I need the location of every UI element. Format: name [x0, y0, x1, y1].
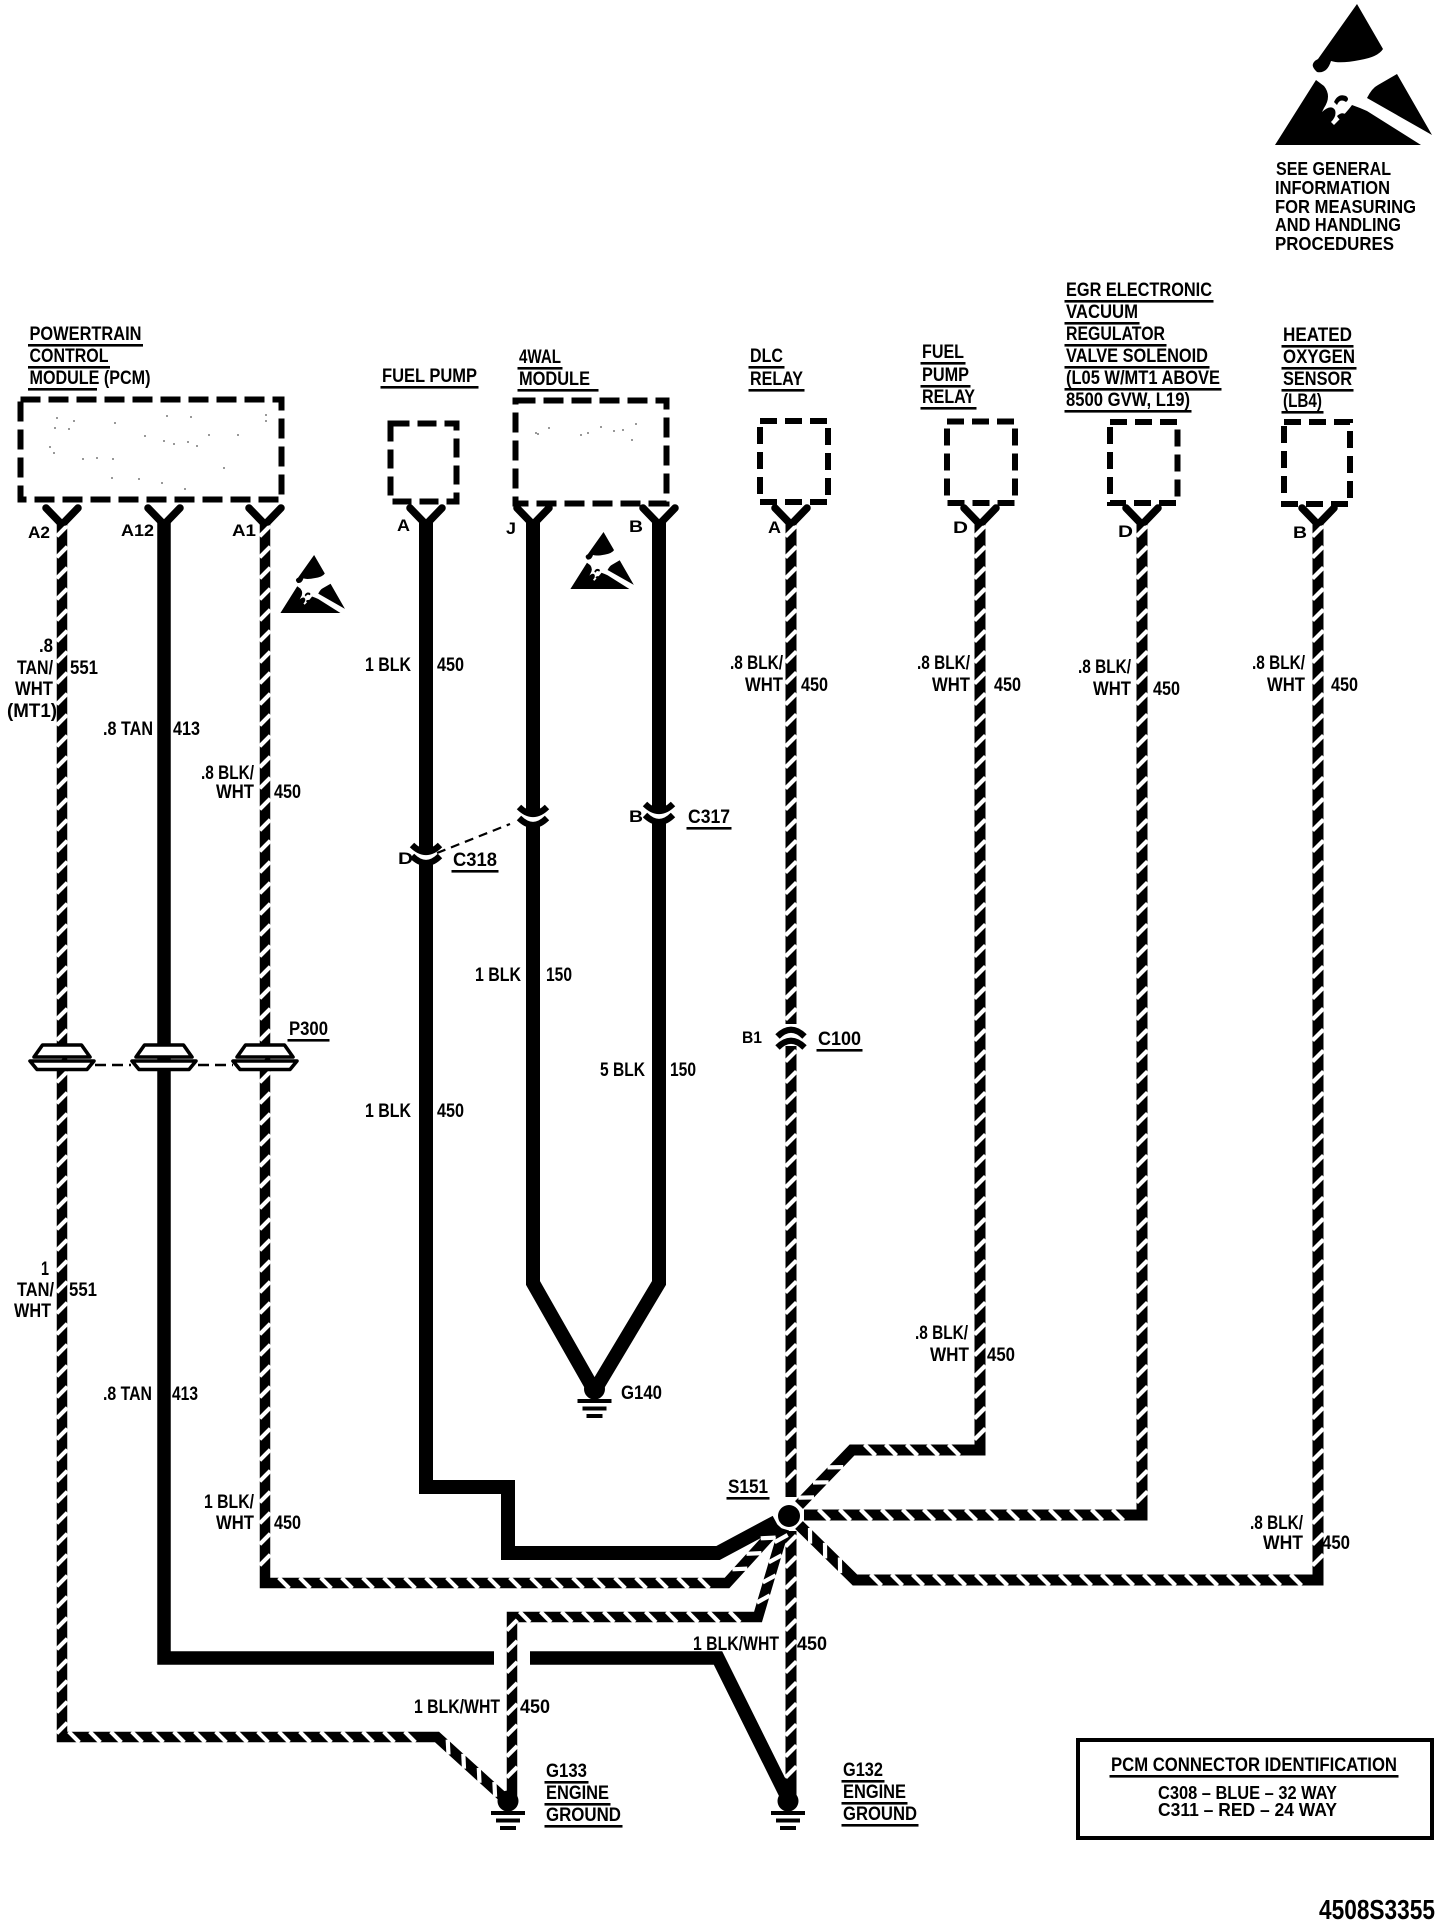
pass-through grommet P300 on A1 wire	[233, 1045, 297, 1070]
label connector C100 label	[817, 1029, 863, 1052]
svg-text:450: 450	[987, 1345, 1015, 1366]
label EGR title 6	[1065, 390, 1192, 413]
svg-text:5 BLK: 5 BLK	[600, 1060, 645, 1081]
svg-text:C311 – RED – 24 WAY: C311 – RED – 24 WAY	[1158, 1800, 1337, 1820]
svg-text:(LB4): (LB4)	[1283, 391, 1322, 412]
svg-text:A2: A2	[28, 523, 50, 542]
label FP relay lower color 2	[930, 1345, 969, 1366]
svg-text:ENGINE: ENGINE	[546, 1783, 609, 1804]
svg-text:1 BLK: 1 BLK	[365, 655, 411, 676]
svg-text:MODULE: MODULE	[519, 369, 590, 390]
svg-text:VALVE SOLENOID: VALVE SOLENOID	[1066, 346, 1208, 367]
pin terminal DLC relay pin A	[775, 508, 807, 522]
dashed link P300 b	[198, 1064, 233, 1067]
pin terminal heated O2 sensor pin B	[1302, 508, 1334, 522]
inline connector C318 half on 4WAL J wire	[519, 807, 547, 825]
pass-through grommet P300 on A2 wire	[30, 1045, 94, 1070]
svg-text:J: J	[506, 519, 516, 538]
label A2 option	[7, 701, 57, 722]
label pin B C317	[629, 807, 643, 826]
wire fuel pump 1 BLK 450 (to S151)	[426, 862, 776, 1553]
label pin A DLC	[768, 518, 781, 537]
svg-text:FUEL: FUEL	[922, 342, 964, 363]
label G133 label 2	[545, 1783, 611, 1806]
ground G140	[578, 1379, 612, 1419]
pin terminal PCM pin A12	[148, 508, 180, 522]
label HO2S title 1	[1282, 325, 1354, 348]
label G140 label	[621, 1383, 662, 1404]
wire heated O2 sensor B .8 BLK/WHT 450 to S151	[799, 521, 1324, 1586]
svg-text:450: 450	[801, 675, 828, 696]
svg-text:D: D	[398, 849, 413, 868]
svg-text:.8 BLK/: .8 BLK/	[1078, 657, 1132, 678]
label A12 lower gauge/color	[103, 1384, 152, 1405]
label HO2S lower color 2	[1263, 1533, 1303, 1554]
label A2 lower color 2	[14, 1301, 51, 1322]
svg-text:VACUUM: VACUUM	[1066, 302, 1138, 323]
label fuel pump lower gauge/color	[365, 1101, 411, 1122]
label pin B1 C100	[742, 1028, 762, 1047]
label HO2S title 4	[1282, 391, 1324, 414]
wire fuel pump relay D .8 BLK/WHT 450 to S151	[798, 521, 985, 1505]
svg-text:WHT: WHT	[745, 675, 783, 696]
svg-text:551: 551	[69, 1280, 97, 1301]
svg-text:B1: B1	[742, 1028, 762, 1047]
svg-text:450: 450	[1153, 679, 1180, 700]
label S151-G133 gauge/color	[414, 1697, 500, 1718]
label A2 lower color 1	[17, 1280, 55, 1301]
label info box title	[1110, 1755, 1399, 1778]
label fuel pump gauge/color	[365, 655, 411, 676]
label note line 5	[1275, 234, 1394, 254]
svg-text:D: D	[953, 518, 968, 537]
label EGR title 4	[1065, 346, 1210, 369]
label EGR color 2	[1093, 679, 1131, 700]
inline connector C100 on DLC relay wire (pin B1)	[778, 1030, 805, 1048]
svg-text:G133: G133	[546, 1761, 587, 1782]
svg-text:4WAL: 4WAL	[519, 347, 561, 368]
svg-text:GROUND: GROUND	[843, 1804, 917, 1825]
svg-text:D: D	[1118, 522, 1133, 541]
pin terminal PCM pin A2	[46, 508, 78, 522]
label HO2S lower gauge/color 1	[1250, 1513, 1304, 1534]
svg-text:P300: P300	[289, 1019, 328, 1040]
wire DLC relay A .8 BLK/WHT 450 upper segment	[786, 521, 797, 1024]
svg-text:413: 413	[172, 1384, 198, 1405]
label connector C318 label	[452, 850, 499, 873]
svg-text:OXYGEN: OXYGEN	[1283, 347, 1355, 368]
label HO2S gauge/color 1	[1252, 653, 1306, 674]
label A12 gauge/color	[103, 719, 153, 740]
svg-text:A: A	[397, 516, 410, 535]
svg-text:551: 551	[70, 658, 98, 679]
svg-text:REGULATOR: REGULATOR	[1066, 324, 1165, 345]
label DLC title 1	[749, 346, 785, 369]
component box FUEL PUMP RELAY	[947, 422, 1015, 504]
label FP relay title 1	[921, 342, 966, 365]
label A2 lower circuit 551	[69, 1280, 97, 1301]
wire 4WAL J 1 BLK 150 upper segment	[526, 521, 540, 813]
label EGR gauge/color 1	[1078, 657, 1132, 678]
svg-text:1 BLK/: 1 BLK/	[204, 1492, 255, 1513]
svg-text:WHT: WHT	[932, 675, 970, 696]
label A1 lower gauge/color 1	[204, 1492, 255, 1513]
label A1 color 2	[216, 782, 254, 803]
svg-text:450: 450	[1331, 675, 1358, 696]
label A1 lower circuit 450	[274, 1513, 301, 1534]
wire PCM A2 .8 TAN/WHT 551 to G133	[57, 521, 503, 1797]
label pin A2	[28, 523, 50, 542]
PCM connector identification box	[1078, 1740, 1432, 1838]
label S151-G133 circuit 450	[520, 1697, 550, 1718]
label FP relay lower circuit 450	[987, 1345, 1015, 1366]
label 4WAL B gauge/color	[600, 1060, 645, 1081]
wire S151 to G133 1 BLK/WHT 450	[507, 1529, 788, 1797]
svg-text:450: 450	[437, 655, 464, 676]
svg-text:450: 450	[274, 782, 301, 803]
label pin B HO2S	[1293, 523, 1307, 542]
svg-text:C318: C318	[453, 850, 497, 871]
svg-text:WHT: WHT	[1267, 675, 1305, 696]
label pin A1	[232, 521, 256, 540]
svg-text:C100: C100	[818, 1029, 861, 1050]
label EGR title 1	[1065, 280, 1214, 303]
svg-text:WHT: WHT	[216, 1513, 254, 1534]
label A1 gauge/color 1	[201, 763, 255, 784]
svg-text:1 BLK/WHT: 1 BLK/WHT	[414, 1697, 500, 1718]
label G132 label 3	[842, 1804, 919, 1827]
label HO2S circuit 450	[1331, 675, 1358, 696]
svg-text:.8 BLK/: .8 BLK/	[915, 1323, 969, 1344]
svg-text:WHT: WHT	[14, 1301, 51, 1322]
wire A12 .8 TAN 413 (PCM A12 to G132)	[164, 521, 788, 1799]
svg-text:.8: .8	[39, 636, 53, 657]
label G133 label 1	[545, 1761, 589, 1784]
label pin D EGR	[1118, 522, 1133, 541]
label DLC circuit 450	[801, 675, 828, 696]
label A2 color 1	[17, 658, 54, 679]
label PCM title 3	[28, 368, 151, 391]
svg-text:INFORMATION: INFORMATION	[1275, 178, 1390, 198]
pin terminal fuel pump relay pin D	[964, 508, 996, 522]
svg-text:TAN/: TAN/	[17, 1280, 55, 1301]
label grommet P300 label	[288, 1019, 330, 1042]
svg-text:G132: G132	[843, 1760, 883, 1781]
svg-text:.8 BLK/: .8 BLK/	[1250, 1513, 1304, 1534]
label DLC title 2	[749, 369, 805, 392]
svg-text:.8 BLK/: .8 BLK/	[201, 763, 255, 784]
wire EGR solenoid D .8 BLK/WHT 450 to S151	[804, 521, 1148, 1521]
svg-text:8500 GVW, L19): 8500 GVW, L19)	[1066, 390, 1190, 411]
label A2 gauge	[39, 636, 53, 657]
label 4WAL title 1	[518, 347, 563, 370]
svg-text:450: 450	[1322, 1533, 1350, 1554]
label pin D FP relay	[953, 518, 968, 537]
svg-text:FOR MEASURING: FOR MEASURING	[1275, 197, 1416, 217]
svg-text:4508S3355: 4508S3355	[1319, 1894, 1435, 1924]
svg-text:S151: S151	[728, 1477, 768, 1498]
component box EGR solenoid	[1110, 422, 1178, 503]
svg-text:A1: A1	[232, 521, 256, 540]
label HO2S title 2	[1282, 347, 1357, 370]
label FP relay circuit 450	[994, 675, 1021, 696]
label pin B 4WAL	[629, 517, 643, 536]
svg-text:HEATED: HEATED	[1283, 325, 1352, 346]
component box FUEL PUMP	[391, 424, 457, 502]
label G133 label 3	[545, 1805, 623, 1828]
wire PCM A1 .8 BLK/WHT 450 to S151	[260, 521, 779, 1588]
wire DLC relay wire through S151 to G132	[786, 1531, 797, 1799]
svg-text:ENGINE: ENGINE	[843, 1782, 906, 1803]
svg-text:SENSOR: SENSOR	[1283, 369, 1352, 390]
label FP relay gauge/color 1	[917, 653, 971, 674]
svg-text:.8 BLK/: .8 BLK/	[917, 653, 971, 674]
component box DLC RELAY	[760, 421, 828, 502]
svg-text:DLC: DLC	[750, 346, 783, 367]
label PCM title 2	[28, 346, 110, 369]
ESD warning symbol (small, near 4WAL wires)	[570, 532, 633, 589]
pin terminal 4WAL pin B	[643, 508, 675, 522]
svg-text:(L05 W/MT1 ABOVE: (L05 W/MT1 ABOVE	[1066, 368, 1220, 389]
svg-text:413: 413	[173, 719, 200, 740]
label info box line C308	[1158, 1783, 1337, 1803]
svg-text:PCM CONNECTOR IDENTIFICATION: PCM CONNECTOR IDENTIFICATION	[1111, 1755, 1397, 1776]
pin terminal PCM pin A1	[249, 508, 281, 522]
label 4WAL J gauge/color	[475, 965, 521, 986]
ground G133	[491, 1791, 525, 1831]
splice S151	[778, 1505, 800, 1527]
svg-text:150: 150	[670, 1060, 696, 1081]
label 4WAL title 2	[518, 369, 599, 392]
component box 4WAL MODULE	[516, 401, 667, 504]
label fuel pump lower circuit 450	[437, 1101, 464, 1122]
svg-text:TAN/: TAN/	[17, 658, 54, 679]
svg-text:WHT: WHT	[1093, 679, 1131, 700]
label EGR title 3	[1065, 324, 1167, 347]
svg-text:GROUND: GROUND	[546, 1805, 621, 1826]
svg-text:WHT: WHT	[216, 782, 254, 803]
label pin A12	[121, 521, 154, 540]
label A2 color 2	[15, 679, 53, 700]
svg-text:C317: C317	[688, 807, 730, 828]
label EGR title 5	[1065, 368, 1222, 391]
label A12 circuit 413	[173, 719, 200, 740]
pin terminal 4WAL pin J	[517, 508, 549, 522]
label HO2S lower circuit 450	[1322, 1533, 1350, 1554]
svg-text:WHT: WHT	[15, 679, 53, 700]
ESD warning symbol (small, near PCM A1 wire)	[280, 555, 345, 613]
svg-text:(MT1): (MT1)	[7, 701, 57, 722]
label pin J	[506, 519, 516, 538]
svg-text:1: 1	[41, 1259, 49, 1280]
component box HEATED OXYGEN SENSOR	[1284, 422, 1350, 504]
svg-text:WHT: WHT	[930, 1345, 969, 1366]
label G132 label 1	[842, 1760, 885, 1783]
svg-text:PUMP: PUMP	[922, 365, 969, 386]
label S151-G132 circuit 450	[797, 1634, 827, 1655]
ground G132	[771, 1791, 805, 1831]
label EGR title 2	[1065, 302, 1140, 325]
svg-text:G140: G140	[621, 1383, 662, 1404]
label pin D C318	[398, 849, 413, 868]
svg-text:.8 TAN: .8 TAN	[103, 1384, 152, 1405]
svg-text:450: 450	[797, 1634, 827, 1655]
label HO2S color 2	[1267, 675, 1305, 696]
label S151-G132 gauge/color	[693, 1634, 779, 1655]
wire 4WAL B wire to G140	[598, 821, 659, 1385]
wire 4WAL J wire to G140	[533, 824, 591, 1385]
label A2 circuit 551	[70, 658, 98, 679]
svg-text:A: A	[768, 518, 781, 537]
label A1 circuit 450	[274, 782, 301, 803]
wire DLC relay wire upper-mid segment	[786, 1046, 797, 1497]
ESD warning symbol (top right)	[1275, 4, 1432, 145]
svg-text:PROCEDURES: PROCEDURES	[1275, 234, 1394, 254]
label FP relay lower gauge/color 1	[915, 1323, 969, 1344]
pass-through grommet P300 on A12 wire	[132, 1045, 196, 1070]
inline connector C318 on fuel pump wire (pin D)	[412, 845, 440, 863]
label drawing number	[1319, 1894, 1435, 1924]
label connector C317 label	[687, 807, 732, 830]
svg-text:1 BLK: 1 BLK	[365, 1101, 411, 1122]
inline connector C317 on 4WAL B wire	[645, 804, 673, 822]
label A1 lower color 2	[216, 1513, 254, 1534]
svg-text:1 BLK: 1 BLK	[475, 965, 521, 986]
pin terminal fuel pump pin A	[410, 508, 442, 522]
label G132 label 2	[842, 1782, 908, 1805]
svg-text:450: 450	[437, 1101, 464, 1122]
label note line 4	[1275, 215, 1401, 235]
svg-text:SEE GENERAL: SEE GENERAL	[1276, 159, 1391, 179]
svg-text:WHT: WHT	[1263, 1533, 1303, 1554]
label FP relay color 2	[932, 675, 970, 696]
wire fuel pump wire upper segment	[419, 521, 433, 851]
svg-text:450: 450	[520, 1697, 550, 1718]
label 4WAL J circuit 150	[546, 965, 572, 986]
svg-text:150: 150	[546, 965, 572, 986]
dashed link P300 a	[95, 1064, 131, 1067]
svg-text:CONTROL: CONTROL	[30, 346, 109, 367]
label splice S151 label	[727, 1477, 770, 1500]
label fuel pump title	[381, 366, 479, 389]
svg-text:RELAY: RELAY	[750, 369, 803, 390]
svg-text:AND HANDLING: AND HANDLING	[1275, 215, 1401, 235]
wire 4WAL B 5 BLK 150 upper segment	[652, 521, 666, 810]
svg-text:450: 450	[274, 1513, 301, 1534]
label pin A fuel pump	[397, 516, 410, 535]
svg-text:B: B	[1293, 523, 1307, 542]
svg-text:.8 BLK/: .8 BLK/	[1252, 653, 1306, 674]
svg-text:FUEL PUMP: FUEL PUMP	[382, 366, 477, 387]
svg-text:MODULE (PCM): MODULE (PCM)	[30, 368, 151, 389]
label DLC color 2	[745, 675, 783, 696]
svg-text:B: B	[629, 807, 643, 826]
label HO2S title 3	[1282, 369, 1354, 392]
label 4WAL B circuit 150	[670, 1060, 696, 1081]
svg-text:POWERTRAIN: POWERTRAIN	[30, 324, 142, 345]
dashed leader line C318	[437, 824, 510, 853]
label note line 3	[1275, 197, 1416, 217]
label info box line C311	[1158, 1800, 1337, 1820]
label note line 1	[1276, 159, 1391, 179]
label fuel pump circuit 450	[437, 655, 464, 676]
label note line 2	[1275, 178, 1390, 198]
svg-text:RELAY: RELAY	[922, 387, 975, 408]
svg-text:.8 TAN: .8 TAN	[103, 719, 153, 740]
label A2 lower gauge	[41, 1259, 49, 1280]
svg-text:A12: A12	[121, 521, 154, 540]
label FP relay title 3	[921, 387, 977, 410]
svg-text:B: B	[629, 517, 643, 536]
label A12 lower circuit 413	[172, 1384, 198, 1405]
label PCM title 1	[28, 324, 143, 347]
label FP relay title 2	[921, 365, 971, 388]
component box PCM (Powertrain Control Module)	[21, 400, 282, 500]
label DLC gauge/color 1	[730, 653, 784, 674]
svg-text:1 BLK/WHT: 1 BLK/WHT	[693, 1634, 779, 1655]
svg-text:.8 BLK/: .8 BLK/	[730, 653, 784, 674]
pin terminal EGR solenoid pin D	[1126, 508, 1158, 522]
svg-text:EGR ELECTRONIC: EGR ELECTRONIC	[1066, 280, 1212, 301]
svg-text:450: 450	[994, 675, 1021, 696]
label EGR circuit 450	[1153, 679, 1180, 700]
crossing break (G133 wire over A12 wire)	[494, 1644, 530, 1672]
